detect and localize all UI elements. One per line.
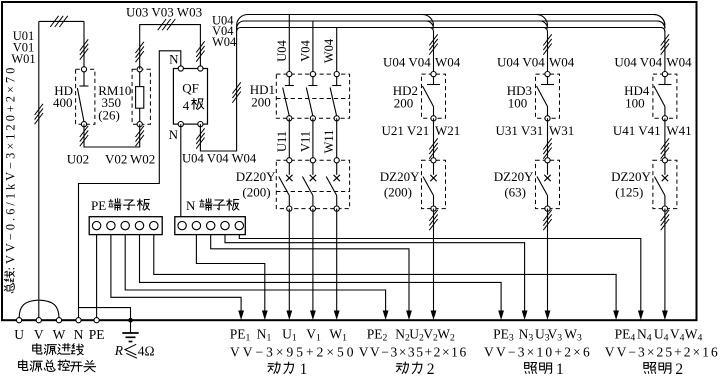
node U04 V04 W04 label below QF	[182, 152, 257, 166]
3-phase hash on bus feed riser	[232, 82, 240, 102]
wire bus W04 bottom line	[237, 28, 665, 32]
label main power control switch	[19, 360, 96, 372]
svg-text::VV−0.6/1kV−3×120+2×70: :VV−0.6/1kV−3×120+2×70	[3, 65, 17, 271]
wire output of DZ20Y (63)	[545, 209, 551, 320]
svg-text:VV−3×95+2×50: VV−3×95+2×50	[230, 345, 356, 360]
label circuit lighting1	[525, 361, 564, 376]
label bus cable spec (vertical)	[3, 65, 17, 293]
svg-text:PE: PE	[91, 198, 106, 213]
switch HD1 200 (dashed enclosure)	[276, 74, 349, 118]
3-phase hash mark HD3 feeder	[543, 34, 551, 54]
svg-text:U31 V31: U31 V31	[496, 123, 544, 138]
label DZ20Y (200)	[380, 169, 420, 200]
wire incoming 3-phase brace U-V-W	[19, 300, 59, 318]
svg-text:VV−3×25+2×16: VV−3×25+2×16	[605, 345, 720, 360]
wire U04b2 tap arcs from busbar	[423, 15, 434, 75]
wire U21 V21 to DZ20Y	[433, 118, 435, 160]
switch HD1 poles	[276, 72, 349, 121]
wire U04 V04 W04 QF output to busbar	[200, 26, 236, 151]
svg-text:U03 V03 W03: U03 V03 W03	[126, 5, 202, 20]
3-phase hash mark below HD2	[429, 138, 437, 158]
label circuit power2	[396, 361, 434, 376]
svg-text:1: 1	[556, 361, 564, 376]
label U V W N PE	[14, 327, 104, 342]
svg-text:U04 V04: U04 V04	[383, 55, 431, 70]
label PE2 N2 U2 V2 W2	[367, 327, 455, 344]
node U31 V31 labels below HD3	[496, 123, 575, 138]
label HD 400	[53, 83, 73, 110]
label DZ20Y (125)	[611, 169, 651, 200]
node V04 label branch1	[298, 39, 312, 61]
svg-text:4: 4	[183, 98, 190, 113]
wire U11 V11 W11 HD1 to DZ20Y	[289, 118, 336, 160]
3-phase hash mark below HD3	[543, 138, 551, 158]
svg-text:4Ω: 4Ω	[138, 343, 155, 358]
wire U V W riser to top-left corner	[39, 21, 84, 299]
svg-text:V: V	[34, 327, 44, 342]
node U41 V41 labels below HD4	[613, 123, 692, 138]
svg-text:V11: V11	[298, 131, 312, 152]
svg-text:N: N	[169, 52, 179, 67]
terminal V incoming	[36, 318, 41, 323]
svg-text:(26): (26)	[98, 108, 120, 123]
svg-text:W11: W11	[322, 130, 336, 154]
svg-text:R: R	[114, 343, 124, 358]
wire U02 V02 W02 connecting HD output to RM10	[84, 124, 140, 147]
3-phase hash mark on riser	[35, 104, 43, 124]
label R<=4 ohm	[114, 343, 155, 358]
3-phase hash QF output	[196, 128, 204, 148]
wire U31 V31 to DZ20Y	[547, 118, 549, 160]
terminal N incoming	[76, 318, 81, 323]
wire N incoming to QF	[79, 51, 181, 318]
wire PE2 output	[125, 235, 388, 320]
svg-text:V02: V02	[105, 152, 127, 167]
svg-text:W04: W04	[549, 55, 575, 70]
3-phase hash mark below HD4	[661, 138, 669, 158]
label RM10 350 (26)	[98, 83, 131, 123]
label HD3 100	[507, 83, 532, 111]
wire PE3 output	[140, 235, 505, 320]
svg-text:DZ20Y: DZ20Y	[380, 169, 420, 184]
label DZ20Y (63)	[494, 169, 534, 200]
node U21 V21 labels below HD2	[382, 123, 461, 138]
breaker DZ20Y (200) (dashed enclosure)	[422, 160, 446, 208]
terminal board N busbar box	[175, 217, 246, 235]
3-phase hash above RM10	[136, 42, 144, 62]
breaker DZ20Y (125) (dashed enclosure)	[653, 160, 677, 208]
svg-text:1: 1	[300, 361, 308, 376]
wire V1 output	[310, 209, 316, 320]
node U04 V04 W04 labels above HD3	[497, 55, 575, 70]
switch HD2 200 (dashed enclosure)	[422, 74, 446, 118]
3-phase hash mark on output	[543, 210, 551, 230]
label N terminal board	[186, 198, 239, 213]
svg-text:U04 V04: U04 V04	[614, 55, 662, 70]
wire U03 V03 W03 RM10 to QF breaker	[140, 25, 201, 70]
label circuit lighting2	[644, 361, 683, 376]
svg-text:N: N	[169, 127, 179, 142]
svg-text:DZ20Y: DZ20Y	[494, 169, 534, 184]
svg-text:U21 V21: U21 V21	[382, 123, 430, 138]
label HD1 200	[250, 82, 275, 110]
label PE4 N4 U4 V4 W4	[615, 327, 703, 344]
wire U04b3 tap arcs from busbar	[537, 15, 548, 75]
svg-text:N: N	[186, 198, 196, 213]
node U04 V04 W04 labels above HD4	[614, 55, 692, 70]
svg-text:100: 100	[508, 96, 528, 111]
node U04 label branch1	[275, 39, 289, 61]
wire output of DZ20Y (200)	[431, 209, 437, 320]
svg-text:U02: U02	[67, 152, 89, 167]
fuse RM10 symbol	[136, 67, 144, 127]
label QF 4-pole	[182, 81, 204, 114]
svg-text:W01: W01	[11, 52, 35, 66]
svg-text:W31: W31	[549, 123, 574, 138]
label cable spec power1	[230, 345, 356, 360]
3-phase hash on U03 horizontal	[158, 19, 176, 30]
3-phase hash mark on output	[661, 210, 669, 230]
terminal W incoming	[56, 318, 61, 323]
svg-text:W: W	[53, 327, 66, 342]
svg-text:W04: W04	[322, 38, 336, 63]
junction earthing point	[128, 318, 133, 323]
svg-text:N: N	[74, 327, 84, 342]
3-phase hash mark on top horizontal wire	[50, 16, 68, 27]
wire N1 output	[196, 235, 267, 320]
node U11 label	[275, 131, 289, 152]
3-phase hash mark HD2 feeder	[429, 34, 437, 54]
svg-text:U04: U04	[275, 39, 289, 61]
wire N from QF to board	[180, 124, 182, 217]
switch HD4 symbol	[654, 72, 672, 121]
label power incoming line	[33, 344, 84, 355]
svg-text:(200): (200)	[242, 185, 270, 200]
breaker DZ20Y (63) (dashed enclosure)	[536, 160, 560, 208]
wire bus V04 middle line	[237, 21, 665, 29]
svg-text:(200): (200)	[384, 185, 412, 200]
wire N to earth link	[79, 308, 131, 321]
node U02 V02 W02 labels	[67, 152, 155, 167]
breaker DZ20Y (200) symbol	[423, 158, 437, 212]
wire feed into HD main switch	[83, 21, 85, 69]
label cable spec power2	[359, 345, 468, 360]
3-phase hash mark HD4 feeder	[661, 34, 669, 54]
svg-text:U04 V04 W04: U04 V04 W04	[182, 152, 257, 166]
wire branch1 V04 tap	[312, 21, 314, 74]
breaker DZ20Y branch1 poles	[276, 158, 349, 212]
wire N4 output	[239, 235, 643, 320]
wire PE4 output	[154, 235, 619, 320]
3-phase hash below HD	[80, 126, 88, 146]
breaker QF terminals	[178, 66, 203, 127]
svg-text:200: 200	[394, 96, 414, 111]
label PE terminal board	[91, 198, 150, 213]
switch HD 400 main disconnector (dashed enclosure)	[76, 69, 95, 124]
svg-text:W02: W02	[130, 152, 155, 167]
svg-text:U11: U11	[275, 131, 289, 152]
node U01 V01 W01 labels	[11, 29, 35, 66]
svg-text:W04: W04	[435, 55, 461, 70]
terminal U incoming	[17, 318, 22, 323]
svg-text:100: 100	[625, 96, 645, 111]
node V11 label	[298, 131, 312, 152]
wire branch1 U04 tap	[288, 15, 290, 75]
switch HD3 symbol	[537, 72, 555, 121]
3-phase hash below RM10	[136, 126, 144, 146]
label DZ20Y (200) branch1	[236, 169, 276, 200]
label PE3 N3 U3 V3 W3	[493, 327, 582, 344]
breaker QF 4-pole box	[173, 69, 207, 125]
node U04 V04 W04 labels above HD2	[383, 55, 461, 70]
svg-text:U04 V04: U04 V04	[497, 55, 545, 70]
terminal board PE busbar box	[89, 217, 162, 235]
wire N2 output	[211, 235, 412, 320]
fuse RM10 350(26) (dashed enclosure)	[132, 69, 150, 124]
wire U04b4 tap arcs from busbar	[654, 15, 665, 75]
svg-text:200: 200	[251, 95, 271, 110]
svg-text:VV−3×10+2×6: VV−3×10+2×6	[484, 345, 592, 360]
terminal board PE screws	[92, 221, 158, 229]
wire output of DZ20Y (125)	[662, 209, 668, 320]
label HD2 200	[393, 83, 418, 111]
node U03 V03 W03 labels	[126, 5, 202, 20]
wire PE incoming to board	[96, 235, 98, 318]
label HD4 100	[624, 83, 650, 111]
breaker DZ20Y (200) branch1 (dashed enclosure)	[276, 160, 349, 208]
terminal PE incoming	[94, 318, 99, 323]
label PE1 N1 U1 V1 W1	[230, 327, 347, 344]
3-phase hash mark on output	[429, 210, 437, 230]
switch HD4 100 (dashed enclosure)	[653, 74, 677, 118]
svg-text:U41 V41: U41 V41	[613, 123, 661, 138]
node N label above QF	[169, 52, 179, 67]
svg-text:W21: W21	[435, 123, 460, 138]
switch HD 400 symbol	[77, 67, 88, 127]
switch HD2 symbol	[423, 72, 441, 121]
label circuit power1	[268, 361, 307, 376]
svg-text:VV−3×35+2×16: VV−3×35+2×16	[359, 345, 468, 360]
svg-text:PE: PE	[89, 327, 105, 342]
svg-text:2: 2	[675, 361, 683, 376]
ground electrode symbol	[122, 320, 138, 341]
svg-text:(125): (125)	[615, 185, 643, 200]
node N label below QF	[169, 127, 179, 142]
svg-text:U: U	[14, 327, 24, 342]
node W11 label	[322, 130, 336, 154]
svg-text:V04: V04	[298, 39, 312, 61]
wire U41 V41 to DZ20Y	[664, 118, 666, 160]
svg-text:(63): (63)	[504, 185, 526, 200]
node U04 V04 W04 bus labels	[212, 14, 237, 49]
svg-text:W04: W04	[666, 55, 692, 70]
wire branch1 W04 tap	[336, 28, 338, 75]
breaker DZ20Y (125) symbol	[654, 158, 668, 212]
svg-text:W41: W41	[666, 123, 691, 138]
svg-text:QF: QF	[182, 81, 199, 96]
svg-text:DZ20Y: DZ20Y	[236, 169, 276, 184]
wire bus U04 top line	[237, 14, 665, 25]
3-phase hash above QF	[196, 41, 204, 61]
node W04 label branch1	[322, 38, 336, 63]
switch HD3 100 (dashed enclosure)	[536, 74, 560, 118]
svg-text:2: 2	[427, 361, 435, 376]
wire W1 output	[334, 209, 340, 320]
breaker DZ20Y (63) symbol	[537, 158, 551, 212]
label cable spec lighting1	[484, 345, 592, 360]
wire U1 output	[286, 209, 292, 320]
terminal board N screws	[178, 221, 244, 229]
3-phase hash mark above HD	[80, 39, 88, 59]
svg-text:400: 400	[53, 95, 73, 110]
wire PE1 output	[111, 235, 244, 320]
svg-text:DZ20Y: DZ20Y	[611, 169, 651, 184]
wire N3 output	[225, 235, 528, 320]
label cable spec lighting2	[605, 345, 720, 360]
svg-text:W04: W04	[212, 35, 237, 49]
